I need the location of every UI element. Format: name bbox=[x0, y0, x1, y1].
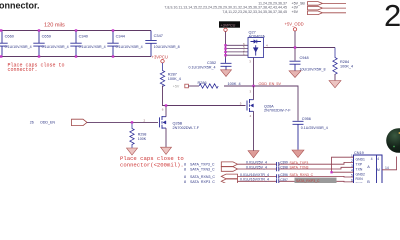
capacitor C397 bbox=[277, 179, 279, 183]
svg-text:120 mils: 120 mils bbox=[44, 23, 65, 29]
svg-text:SATA_RXN3_C: SATA_RXN3_C bbox=[190, 175, 215, 179]
svg-text:R287: R287 bbox=[168, 72, 177, 76]
capacitor C948 bbox=[290, 61, 301, 70]
ground C948 bbox=[289, 71, 301, 78]
wire ODD_EN bbox=[87, 121, 158, 123]
svg-text:5: 5 bbox=[351, 174, 353, 178]
wire GND1/GND2 tie bbox=[332, 157, 354, 172]
node junction +5V_ODD bbox=[294, 46, 296, 48]
svg-text:2: 2 bbox=[384, 0, 400, 33]
wire RXP3 row bbox=[238, 180, 354, 183]
svg-text:0.01U/25V_4: 0.01U/25V_4 bbox=[246, 161, 267, 165]
wire Q26A source down bbox=[253, 111, 255, 150]
svg-text:C344: C344 bbox=[116, 33, 126, 38]
svg-text:C347: C347 bbox=[154, 33, 163, 38]
port SATA_RXN3_C bbox=[221, 174, 237, 179]
ground R284 bbox=[334, 74, 336, 81]
wire RXN3 row bbox=[238, 175, 354, 178]
wire Q26B drain up bbox=[165, 106, 167, 117]
svg-text:7,8,11,22,23,26,32,33,34,35,36: 7,8,11,22,23,26,32,33,34,35,36,37,38,45 bbox=[222, 10, 287, 14]
node junction ODD_EN_5V bbox=[252, 85, 254, 87]
wire top rail +3VPCU bbox=[0, 30, 151, 32]
svg-text:CN19: CN19 bbox=[354, 151, 364, 155]
svg-text:RXN: RXN bbox=[356, 177, 364, 181]
pin numbers bbox=[351, 154, 353, 183]
port +3V stub bbox=[308, 6, 347, 10]
svg-text:100K: 100K bbox=[138, 137, 147, 141]
svg-text:14: 14 bbox=[385, 166, 389, 170]
svg-text:R298: R298 bbox=[138, 132, 147, 136]
svg-text:C399: C399 bbox=[280, 161, 288, 165]
svg-text:M: M bbox=[377, 168, 380, 172]
svg-text:+3VPCU: +3VPCU bbox=[221, 23, 236, 27]
svg-text:C659: C659 bbox=[42, 33, 51, 38]
svg-text:C660: C660 bbox=[5, 33, 15, 38]
transistor Q27 bbox=[248, 38, 264, 58]
svg-text:8: 8 bbox=[184, 167, 186, 171]
capacitor C347 bbox=[145, 31, 156, 57]
svg-text:TXP: TXP bbox=[356, 163, 363, 167]
svg-text:0.01U/16V/X7R_4: 0.01U/16V/X7R_4 bbox=[240, 173, 269, 177]
svg-text:100K_4: 100K_4 bbox=[168, 77, 181, 81]
ground Q26A bbox=[248, 151, 259, 158]
port +5V_SB stub bbox=[308, 2, 347, 15]
svg-text:4: 4 bbox=[371, 157, 373, 161]
svg-text:10U/10V/X5R_8: 10U/10V/X5R_8 bbox=[154, 45, 180, 49]
wire Q26A drain up bbox=[253, 86, 255, 100]
svg-text:R284: R284 bbox=[340, 60, 349, 64]
svg-text:C396: C396 bbox=[280, 173, 288, 177]
wire TXP3 row bbox=[238, 162, 354, 164]
svg-text:8: 8 bbox=[184, 163, 186, 167]
svg-text:0.1U/10V/X5R_4: 0.1U/10V/X5R_4 bbox=[189, 66, 216, 70]
svg-text:TXN: TXN bbox=[356, 167, 363, 171]
svg-text:B: B bbox=[367, 180, 370, 183]
wire R287 to Q26A gate bbox=[163, 86, 246, 106]
port SATA_RXP3_C bbox=[221, 179, 237, 184]
port square ODD_EN_5V bbox=[185, 84, 189, 88]
svg-text:C340: C340 bbox=[79, 33, 89, 38]
svg-text:C956: C956 bbox=[302, 117, 311, 121]
svg-text:3: 3 bbox=[250, 89, 252, 93]
svg-text:100K_4: 100K_4 bbox=[340, 65, 353, 69]
power symbol +3VPCU (Q27) bbox=[224, 28, 227, 31]
port SATA_TXN3_C bbox=[221, 167, 237, 172]
svg-text:SATA_RXN3_C: SATA_RXN3_C bbox=[290, 173, 314, 177]
svg-text:SATA_TXN3_C: SATA_TXN3_C bbox=[190, 167, 215, 171]
transistor Q26B bbox=[160, 116, 167, 129]
svg-text:GND1: GND1 bbox=[356, 158, 366, 162]
svg-text:10U/10V/X5R_8: 10U/10V/X5R_8 bbox=[300, 68, 326, 72]
capacitor C398 bbox=[277, 167, 279, 171]
svg-text:8: 8 bbox=[184, 180, 186, 183]
svg-text:2N7002DW-7-F: 2N7002DW-7-F bbox=[173, 126, 200, 130]
svg-text:+5V_ODD: +5V_ODD bbox=[285, 21, 304, 26]
svg-text:SATA_RXP3_C: SATA_RXP3_C bbox=[296, 179, 320, 183]
svg-text:3: 3 bbox=[351, 164, 353, 168]
svg-text:GND2: GND2 bbox=[356, 172, 366, 176]
svg-text:6: 6 bbox=[162, 107, 164, 111]
pin number list rows (top right) bbox=[164, 1, 305, 13]
port SATA_TXP3_C bbox=[221, 162, 237, 167]
highlight box RXP3 bbox=[295, 178, 337, 183]
wire leads to Q27 bbox=[226, 45, 249, 55]
svg-text:AO6402A: AO6402A bbox=[249, 35, 266, 39]
wire pin 14 bbox=[382, 157, 397, 170]
svg-text:4: 4 bbox=[266, 43, 268, 47]
wire to R286 bbox=[188, 85, 199, 87]
svg-text:4: 4 bbox=[377, 157, 379, 161]
net tag +3VPCU (highlighted) bbox=[219, 21, 240, 27]
svg-text:6: 6 bbox=[351, 178, 353, 182]
wire Q27 source to +5V_ODD bbox=[264, 47, 336, 49]
node junction GND tie bbox=[330, 171, 332, 173]
svg-text:SATA_RXP3_C: SATA_RXP3_C bbox=[190, 180, 215, 183]
svg-text:C948: C948 bbox=[300, 56, 309, 60]
ground Q26B bbox=[161, 147, 172, 154]
capacitor C340 bbox=[70, 31, 81, 57]
wire +5V_ODD down bbox=[294, 31, 296, 61]
svg-text:connector(<200mil).: connector(<200mil). bbox=[120, 162, 184, 169]
port +5V stub bbox=[308, 11, 347, 15]
resistor R298 bbox=[130, 124, 134, 148]
ground R298 bbox=[127, 148, 138, 155]
svg-text:0.01U/16V/X7R_4: 0.01U/16V/X7R_4 bbox=[240, 178, 269, 182]
svg-text:0.1U/10V/X5R_4: 0.1U/10V/X5R_4 bbox=[79, 45, 106, 49]
capacitor C399 bbox=[277, 162, 279, 166]
svg-text:SATA_TXP3_C: SATA_TXP3_C bbox=[190, 163, 215, 167]
resistor R286 bbox=[199, 84, 218, 88]
capacitor C660 bbox=[0, 31, 8, 57]
transistor Q26A bbox=[247, 99, 254, 112]
svg-text:ODD_EN_5V: ODD_EN_5V bbox=[259, 82, 282, 86]
svg-text:2: 2 bbox=[351, 159, 353, 163]
capacitor C956 bbox=[293, 121, 304, 150]
svg-text:0.1U/25V/X5R_4: 0.1U/25V/X5R_4 bbox=[301, 126, 328, 130]
wire bottom rail GND bbox=[0, 56, 151, 58]
svg-text:SATA_TXN3: SATA_TXN3 bbox=[290, 166, 309, 170]
svg-text:4: 4 bbox=[250, 114, 252, 118]
svg-text:C397: C397 bbox=[280, 178, 288, 182]
ground C956 bbox=[292, 150, 304, 158]
pin names bbox=[356, 158, 366, 187]
svg-text:+5V: +5V bbox=[173, 85, 180, 89]
svg-text:0.01U/25V_4: 0.01U/25V_4 bbox=[246, 165, 267, 169]
svg-text:C352: C352 bbox=[207, 61, 216, 65]
svg-text:3: 3 bbox=[249, 59, 251, 63]
resistor R287 bbox=[160, 63, 164, 87]
pin numbers Q27 left bbox=[243, 42, 245, 56]
capacitor C352 bbox=[221, 59, 232, 70]
svg-text:ODD_EN: ODD_EN bbox=[40, 121, 55, 125]
svg-text:R286: R286 bbox=[198, 81, 207, 85]
svg-text:26: 26 bbox=[30, 121, 34, 125]
svg-text:0.1U/10V/X5R_4: 0.1U/10V/X5R_4 bbox=[5, 45, 32, 49]
svg-text:A: A bbox=[367, 165, 370, 169]
capacitor C396 bbox=[277, 174, 279, 178]
svg-text:+3VPCU: +3VPCU bbox=[152, 55, 168, 60]
svg-text:0.1U/10V/X5R_4: 0.1U/10V/X5R_4 bbox=[116, 45, 143, 49]
svg-text:+5V: +5V bbox=[292, 10, 299, 14]
resistor R284 bbox=[333, 48, 337, 75]
svg-text:8: 8 bbox=[184, 175, 186, 179]
svg-text:0.1U/10V/X5R_4: 0.1U/10V/X5R_4 bbox=[42, 45, 69, 49]
node junctions on bus bbox=[224, 44, 226, 56]
svg-text:2N7002DW-7-F: 2N7002DW-7-F bbox=[264, 109, 291, 113]
svg-text:connector.: connector. bbox=[8, 67, 38, 73]
node junction Q26B drain bbox=[165, 104, 167, 106]
svg-text:onnector.: onnector. bbox=[0, 1, 40, 11]
wire R286 to node bbox=[224, 86, 298, 121]
junction dots on rails bbox=[0, 29, 114, 57]
capacitor C344 bbox=[107, 31, 118, 57]
wire Q26B source down bbox=[165, 128, 167, 147]
svg-text:5: 5 bbox=[240, 102, 242, 106]
svg-text:SATA_TXP3: SATA_TXP3 bbox=[290, 161, 309, 165]
capacitor C659 bbox=[33, 31, 44, 57]
svg-text:C398: C398 bbox=[280, 166, 288, 170]
node junction R298 bbox=[131, 121, 133, 123]
ground C352 bbox=[221, 70, 232, 77]
wire bus Q27 drain bbox=[225, 32, 227, 59]
wire TXN3 row bbox=[238, 167, 354, 169]
svg-text:RXP: RXP bbox=[356, 182, 364, 183]
wire Q27 gate down bbox=[253, 58, 255, 87]
